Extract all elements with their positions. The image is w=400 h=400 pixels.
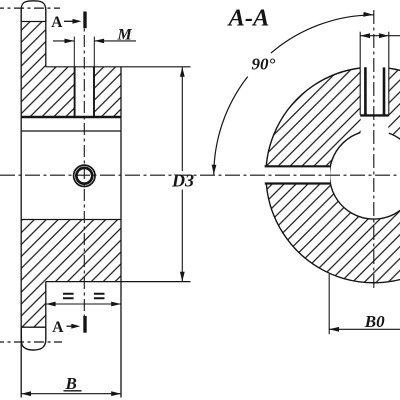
svg-text:A-A: A-A — [227, 5, 270, 32]
hub right edge + B extension — [120, 67, 122, 398]
svg-text:A: A — [52, 319, 64, 336]
svg-text:A: A — [51, 14, 63, 31]
plate right edge lower — [45, 282, 47, 328]
keyway slot white strip (upper) — [75, 66, 94, 117]
arrow A top — [64, 20, 75, 22]
svg-text:B0: B0 — [364, 312, 385, 331]
hatch lower block — [21, 220, 121, 282]
tooth bottom root line — [21, 326, 46, 328]
keyway slot thick line left — [364, 67, 367, 114]
node pitch line bottom — [0, 341, 62, 343]
bore top line — [21, 130, 121, 132]
90 degree arc segment lower — [214, 77, 248, 175]
keyway slot thick line right — [383, 67, 386, 114]
M extension line left — [73, 37, 75, 67]
hub bottom edge + D3 extension — [46, 281, 191, 283]
section mark bar bottom — [83, 316, 86, 333]
arc arrow top — [363, 12, 373, 17]
radial hole circle inner — [76, 168, 92, 184]
M extension line right — [93, 37, 95, 67]
keyway slot thin line left / M ext — [359, 32, 361, 115]
vertical centerline right view — [373, 10, 375, 289]
radial hole bottom line — [265, 182, 331, 184]
dimension B0 line — [329, 328, 400, 330]
hub top edge + D3 extension — [46, 66, 191, 68]
svg-text:D3: D3 — [171, 170, 194, 190]
dimension hub-width line with arrows — [46, 303, 121, 305]
svg-text:M: M — [117, 27, 133, 44]
dimension M line — [53, 40, 74, 42]
equal sign right — [94, 294, 105, 299]
radial hole top line — [265, 165, 331, 167]
keyway slot bottom thick line — [360, 114, 389, 116]
bore circle stroke (broken at keyway slot) — [330, 133, 400, 219]
wire vertical centerline A-A (left view) — [83, 13, 85, 331]
outer circle stroke (broken at keyway slot) — [266, 68, 400, 283]
arrow A bottom — [67, 325, 73, 327]
arc arrow left — [212, 165, 217, 175]
dimension D3 line lower — [181, 190, 183, 282]
90 degree arc segment upper — [271, 15, 374, 53]
svg-text:90°: 90° — [252, 55, 276, 74]
wire horizontal centerline (axis) — [0, 174, 399, 176]
tooth top outline — [21, 1, 46, 22]
hatch plate lower — [21, 282, 46, 328]
hatch plate+hub upper block — [21, 22, 121, 117]
bore bottom line — [21, 219, 121, 221]
node pitch line top — [0, 7, 60, 9]
keyway slot thin line right — [388, 32, 390, 115]
plate left edge + B extension — [20, 22, 22, 398]
keyway slot right line — [93, 67, 95, 116]
radial hole circle (thread outer) — [74, 165, 95, 186]
dimension keyway top line — [360, 35, 400, 37]
keyway surface line (thick) — [21, 116, 121, 119]
radial hole white slit — [263, 167, 330, 183]
dimension B0 ext line — [328, 274, 330, 334]
tooth bottom outline — [21, 327, 46, 350]
dimension D3 line upper — [181, 67, 183, 171]
plate right edge upper — [45, 22, 47, 67]
tooth top root line — [21, 21, 46, 23]
section mark bar top — [83, 12, 86, 29]
keyway slot white strip — [361, 58, 389, 132]
equal sign left — [63, 294, 74, 299]
dimension B line — [21, 393, 121, 395]
keyway slot left line — [74, 67, 76, 116]
hatched annulus — [266, 67, 400, 283]
